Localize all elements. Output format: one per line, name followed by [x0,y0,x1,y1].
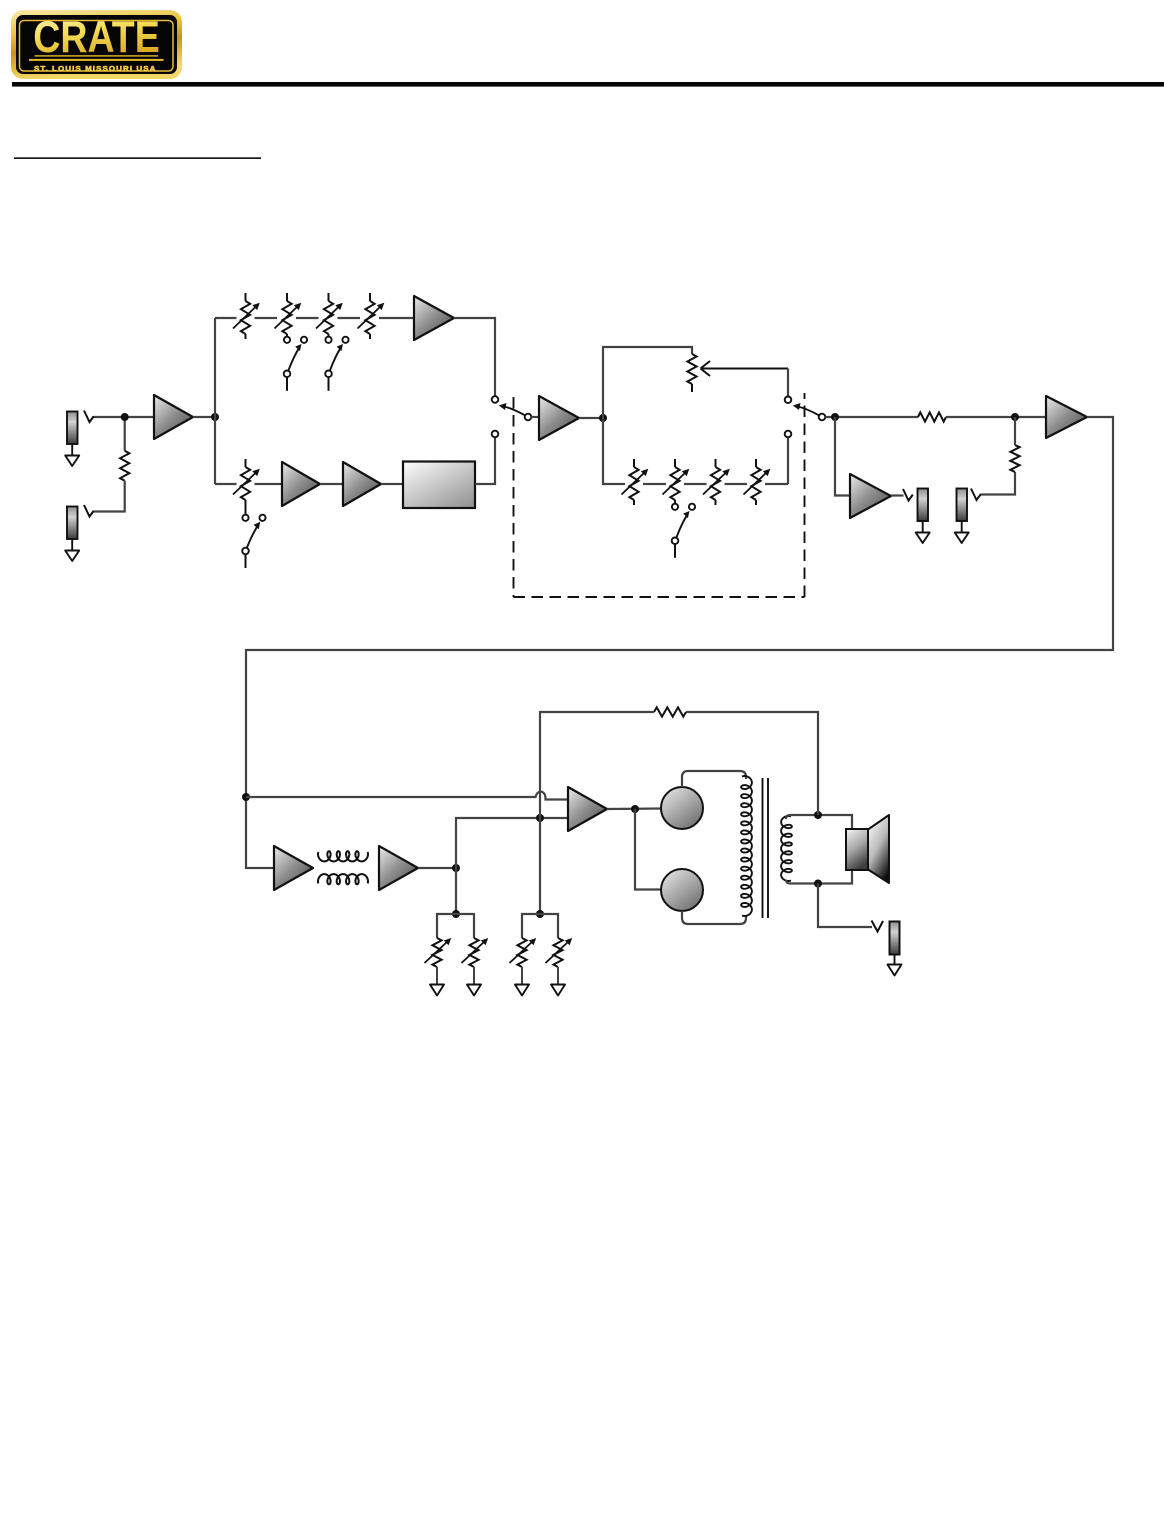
node H junction dot [536,814,544,822]
reverb tank coil top [318,851,368,861]
title underline [14,157,261,159]
wire: node B up to tone chain [214,318,216,417]
op-amp U4 drive amp 2 [343,462,381,506]
jack J3 tip contact [903,489,913,501]
wire: R1 to jack J2 [93,481,125,512]
wire: node E to R3 [1014,417,1016,445]
wire: U1 output to node B [193,416,215,418]
wire: reverb mix pot bracket [437,914,474,938]
potentiometer VR7 [622,459,649,505]
wire: U6 output to jack J3 [891,494,904,496]
node D junction dot [831,413,839,421]
resistor R1 [120,451,129,481]
transformer T1 core [763,778,769,918]
transformer T1 secondary winding [781,816,792,881]
op-amp U6 headphone amp [850,474,891,518]
logo rule 1 [35,55,159,56]
wire: power amp out to tubes [607,807,661,810]
speaker LS1 driver [846,829,868,870]
potentiometer VR2 low [275,293,302,337]
reverb switch SW6 top contact [785,397,792,404]
wire segments: tone chain [215,317,237,319]
wire segments: reverb eq chain [603,418,625,484]
op-amp U5 effects amp [539,396,579,440]
wire segments: gain chain [215,483,237,485]
op-amp U10 power amp [568,787,607,831]
jack J5 speaker [890,922,900,955]
wire: feedback pot bracket [522,914,558,938]
feedback wire: speaker node up through R4 to node H [686,712,818,815]
potentiometer VR12 [462,938,489,985]
wire: master amp out down and across to power amp section [246,417,1113,868]
wire: SW6 pole to node D [825,416,918,418]
jack J4 line out [957,489,968,522]
potentiometer VR10 [744,459,771,505]
switch SW2 [325,337,348,391]
op-amp U7 master amp [1046,396,1087,438]
wire: node D down to headphone amp [835,417,850,496]
wire: V2 to transformer primary bottom [682,911,746,924]
wire: node C up over to reverb level pot [603,347,692,418]
dashed boundary: reverb/effects section [514,393,805,597]
logo rule 2 [29,59,164,61]
logo badge inner gold pinstripe [20,21,174,72]
wire: node B down to gain chain [214,417,216,484]
potentiometer VR11 [425,938,452,985]
ground of J4 line out [955,521,969,543]
header rule [12,82,1164,87]
wire: U2 output to channel switch top contact [454,318,495,396]
speaker LS1 cone [868,815,889,883]
wire: U3 to U4 [320,483,343,485]
node C junction dot [599,414,607,422]
input jack J2 (low) tip contact [84,505,94,517]
op-amp U9 reverb recovery [379,846,418,890]
node I junction dot [631,805,639,813]
jack J2 [67,507,78,540]
jack J3 headphone [918,489,929,522]
reverb switch SW6 pole [793,403,826,420]
op-amp U3 drive amp [282,462,320,506]
channel switch SW4 bottom contact [492,431,499,438]
jack J5 tip contact [872,921,884,932]
potentiometer VR1 gain [233,293,260,339]
op-amp U2 tone amp [414,296,454,340]
node K junction dot [814,880,822,888]
switch SW5 [672,504,695,558]
potentiometer VR4 high [358,293,385,339]
reverb tank coil bottom [318,874,368,884]
ground [551,985,565,996]
wire: secondary top to speaker [786,815,852,829]
input jack J1 (high) tip contact [84,411,94,423]
node E junction dot [1011,413,1019,421]
jack J4 tip contact [971,489,981,501]
wire: U4 to shaping block [381,483,403,485]
node A junction dot [121,413,129,421]
resistor R3 [1010,445,1019,472]
switch SW3 [242,515,265,568]
wire: secondary bottom to speaker [786,870,852,884]
wire: node F to power amp + input (hops over feedback line) [246,792,568,800]
node J junction dot [814,811,822,819]
potentiometer VR5 drive [233,459,260,515]
wire: R2 to master amp [946,416,1046,418]
wire: block output up to channel switch bottom contact [475,437,495,484]
resistor R4 feedback [654,707,686,716]
node F junction dot [242,793,250,801]
ground of J5 [888,955,902,976]
block: shaping filter [403,462,475,509]
reverb switch SW6 bottom contact [785,431,792,438]
logo badge outer gold frame [14,13,180,77]
ground of J1 [65,444,79,466]
wire: node G up to power amp - input [456,818,568,868]
node L junction dot [452,910,460,918]
node G junction dot [452,864,460,872]
wire: SW4 pole to U5 [531,416,539,418]
channel switch SW4 pole [499,403,532,420]
wire: VR6 wiper to reverb switch top contact [787,369,789,397]
svg-text:ST. LOUIS MISSOURI USA: ST. LOUIS MISSOURI USA [34,64,157,73]
wire: J4 tip to R3 [981,472,1015,495]
wire: node G down to mix pots [455,868,457,914]
wire: U5 output node C [579,417,603,419]
svg-text:CRATE: CRATE [33,13,160,62]
ground of J3 headphone [916,521,930,543]
wire: U9 output node G [418,867,456,869]
potentiometer VR14 [546,938,573,985]
potentiometer VR3 mid [316,293,343,337]
ground [430,985,444,996]
switch SW1 [284,337,307,391]
transformer T1 primary winding [741,776,752,916]
potentiometer VR6 reverb level [687,354,696,392]
wiper arrow of VR6 [701,361,789,376]
wire: speaker return to jack J5 [818,884,872,928]
wire: input node to first amp [93,416,154,418]
potentiometer VR13 [510,938,537,985]
channel switch SW4 top contact [492,396,499,403]
ground [515,985,529,996]
op-amp U8 reverb drive [274,846,313,890]
node B junction dot [211,413,219,421]
wire: J1 node down to R1 [124,417,126,451]
ground of J2 [65,539,79,561]
potentiometer VR8 [663,459,690,504]
power tube V2 [661,869,703,911]
ground [467,985,481,996]
resistor R2 [918,412,946,421]
node M junction dot [536,910,544,918]
power tube V1 [661,787,703,829]
potentiometer VR9 [703,459,730,505]
op-amp U1 input buffer [154,395,193,439]
jack J1 [67,412,78,445]
wire: V1 to transformer primary [682,771,746,787]
